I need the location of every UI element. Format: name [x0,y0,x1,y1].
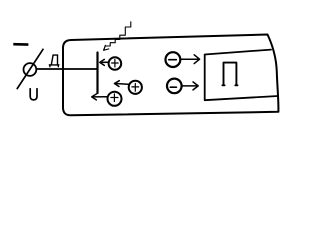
plus in circle 2 [132,84,139,92]
arrow to P block top [180,55,199,64]
label U [30,89,37,100]
plus in circle 1 [112,59,119,67]
wire from source to plate [36,68,96,70]
arrow circle1 to plate [100,59,109,65]
plus in circle 3 [111,94,118,102]
summing circle 1 (top) [109,57,122,70]
diagonal stroke through source [17,49,43,88]
minus in circle 2 [170,86,176,88]
minus circle 2 (bottom) [167,79,182,94]
summing circle 2 (middle) [129,81,142,94]
minus circle 1 (top) [166,52,181,67]
step-adjust staircase arrow [104,22,131,51]
minus sign above source [13,43,28,46]
plate (busbar) [96,53,98,94]
container outline [63,35,278,116]
P block (receiver) [205,50,278,101]
summing circle 3 (bottom) [108,92,122,106]
label D [49,55,59,67]
letter P inside block [222,63,237,86]
arrow circle3 across plate [92,94,108,100]
minus in circle 1 [169,59,177,61]
arrow to P block bottom [182,82,199,90]
arrow circle2 left [114,81,128,87]
source circle U [24,63,37,76]
